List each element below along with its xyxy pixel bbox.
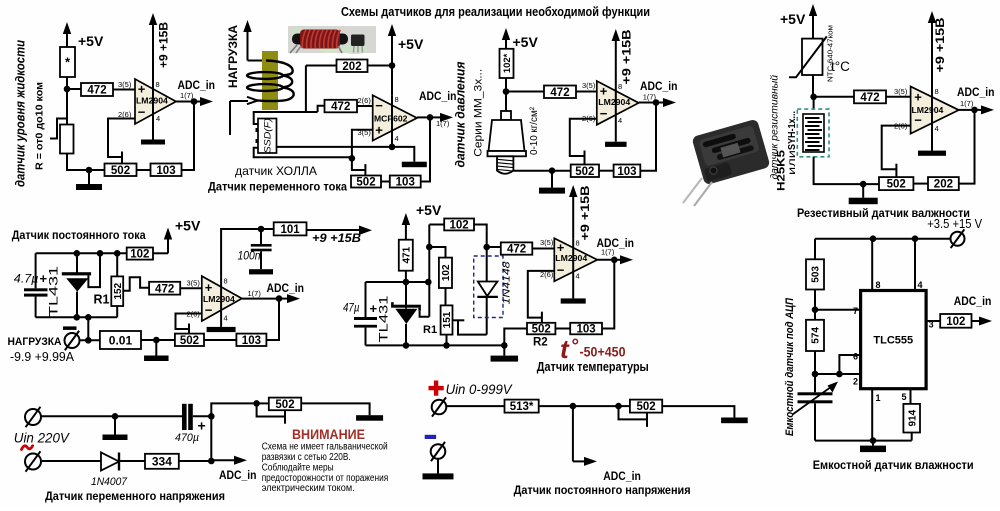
ADC_in arrow C7 — [972, 320, 984, 322]
svg-text:R2: R2 — [533, 337, 548, 349]
wire — [532, 248, 554, 250]
wire output C3 — [639, 102, 656, 104]
svg-text:470µ: 470µ — [175, 432, 199, 444]
pot wiper C1 — [50, 119, 67, 139]
svg-text:2: 2 — [853, 377, 858, 387]
wire — [599, 170, 614, 172]
node C6 a — [403, 279, 410, 286]
capacitor 47u C6 — [365, 282, 367, 317]
wire — [381, 181, 390, 183]
resistor 202 C4 — [928, 177, 959, 190]
wire — [474, 225, 487, 248]
resistor 472 C1 — [81, 83, 113, 96]
photo inductor and hall sensor — [288, 26, 376, 54]
svg-text:103: 103 — [242, 335, 261, 347]
resistor 103 C6 — [570, 323, 602, 335]
wire — [911, 433, 913, 441]
pin 8 wire C3 — [615, 36, 617, 81]
wire — [266, 299, 279, 340]
svg-text:−: − — [557, 263, 565, 278]
terminal T1 C8 — [25, 409, 41, 425]
ground C1 — [88, 170, 90, 184]
svg-text:502: 502 — [887, 179, 906, 191]
pin 5 wire C7 — [910, 389, 912, 404]
svg-text:3(5): 3(5) — [582, 81, 596, 90]
svg-text:ADC_in: ADC_in — [640, 79, 678, 93]
ground C6 opamp — [561, 298, 586, 303]
capacitor 4.7u C5 — [35, 253, 37, 288]
pin 8 wire C7 — [871, 239, 873, 291]
svg-text:3(5): 3(5) — [540, 238, 554, 247]
wire fb step C2 — [352, 158, 366, 170]
svg-text:+5V: +5V — [416, 202, 442, 218]
svg-text:1N4007: 1N4007 — [91, 476, 128, 488]
svg-text:+5V: +5V — [175, 218, 201, 234]
svg-text:Датчик переменного напряжения: Датчик переменного напряжения — [45, 489, 225, 503]
wiper stub C2 — [364, 164, 366, 175]
resistor 101 C5 — [274, 222, 307, 235]
coil L1 C2 — [247, 72, 283, 79]
node out C2 — [427, 114, 434, 121]
node C9 a — [570, 403, 577, 410]
svg-text:1N4148: 1N4148 — [500, 261, 512, 304]
load arrow up C2 — [247, 28, 249, 61]
node C5 e — [85, 314, 92, 321]
svg-text:+: + — [138, 82, 146, 97]
wire — [301, 403, 369, 415]
terminal supply C7 — [951, 232, 965, 246]
node C5 c — [114, 250, 121, 257]
resistor 103 C1 — [151, 164, 182, 177]
svg-text:502: 502 — [356, 177, 375, 189]
resistor 202 C2 — [337, 60, 368, 73]
resistor 502 C1 — [105, 164, 137, 177]
pin 4 wire C1 — [152, 79, 154, 140]
TL431 D2 C6 — [405, 282, 407, 309]
svg-text:Емкостной датчик под АЦП: Емкостной датчик под АЦП — [784, 297, 796, 436]
node out C1 — [191, 98, 198, 105]
svg-text:101: 101 — [281, 224, 301, 236]
wire — [959, 110, 975, 184]
ground C1 opamp — [141, 140, 165, 145]
svg-text:103: 103 — [577, 324, 596, 336]
node gnd C1 — [86, 167, 93, 174]
resistor 103 C2 — [390, 176, 421, 188]
wire — [506, 91, 544, 93]
pin 8 wire C2 — [391, 66, 393, 96]
wire 202 riser C2 — [305, 66, 307, 113]
node C7 d — [812, 371, 819, 378]
svg-text:103: 103 — [617, 166, 636, 178]
svg-text:4.7µ: 4.7µ — [14, 272, 39, 286]
wire — [662, 406, 734, 417]
node C8 a — [112, 413, 119, 420]
svg-text:+3.5 +15 V: +3.5 +15 V — [927, 216, 982, 231]
pin 8 wire C5 — [221, 229, 274, 276]
terminal T2 C8 — [25, 454, 41, 470]
resistor 502 R2 C6 — [527, 323, 555, 335]
node out C6 — [611, 257, 618, 264]
pin 4 wire C7 — [914, 239, 916, 291]
svg-text:8: 8 — [156, 80, 160, 89]
resistor 102* C3 — [500, 49, 514, 78]
svg-text:1(7): 1(7) — [601, 248, 615, 257]
svg-text:ADC_in: ADC_in — [178, 78, 216, 92]
svg-text:103: 103 — [156, 165, 175, 177]
svg-text:2(6): 2(6) — [540, 270, 554, 279]
feedback wire C5 — [176, 314, 202, 330]
svg-text:0.01: 0.01 — [109, 333, 133, 347]
shunt 0.01 C5 — [100, 331, 141, 349]
wire SSD bottom hook C2 — [254, 148, 352, 158]
wire — [141, 339, 175, 341]
svg-text:−: − — [600, 106, 608, 121]
op-amp U1 LM2904 — [135, 79, 176, 124]
variable capacitor C7 — [814, 374, 816, 392]
wire hook top SSD C2 — [254, 112, 318, 124]
wire output C2 — [417, 116, 430, 118]
node C6 c — [426, 244, 433, 251]
wiper stub C3 — [584, 151, 586, 165]
svg-text:1: 1 — [876, 393, 881, 403]
node gnd C4 — [860, 181, 867, 188]
svg-text:+5V: +5V — [780, 11, 806, 27]
label minus C9 — [425, 435, 436, 439]
feedback wire C3 — [570, 119, 597, 156]
op-amp U5 LM2904 — [202, 276, 242, 321]
wire — [429, 247, 445, 258]
ADC_in arrow C3 — [656, 102, 667, 104]
node C5 b — [97, 250, 104, 257]
svg-text:502: 502 — [275, 399, 294, 411]
svg-text:SSD(F): SSD(F) — [263, 118, 273, 153]
pin 8 wire C1 — [152, 20, 154, 79]
input arrow C2 — [230, 100, 248, 102]
svg-text:102: 102 — [441, 264, 452, 281]
terminal load C5 — [65, 333, 80, 348]
terminal T2 C9 — [431, 444, 446, 459]
resistor R* C1 — [60, 47, 75, 77]
ground C5 shunt — [155, 340, 157, 356]
svg-text:R1: R1 — [423, 324, 437, 336]
svg-text:502: 502 — [532, 324, 551, 336]
wire — [505, 78, 507, 92]
svg-text:472: 472 — [155, 283, 174, 295]
wire — [193, 415, 212, 417]
svg-text:1(7): 1(7) — [436, 119, 450, 128]
ADC_in arrow C1 — [194, 101, 204, 103]
node C5 d — [74, 314, 81, 321]
svg-text:TLC555: TLC555 — [873, 335, 913, 347]
capacitor 470u C8 — [182, 404, 187, 430]
resistor 102 C6 top — [444, 219, 474, 231]
resistor 502 C5 — [175, 334, 204, 346]
ground C8 top — [114, 416, 116, 434]
svg-text:8: 8 — [576, 239, 580, 248]
svg-text:8: 8 — [395, 95, 399, 104]
node A1 — [64, 86, 71, 93]
wire — [913, 183, 928, 185]
ADC_in arrow C2 — [430, 116, 444, 118]
svg-text:472: 472 — [331, 101, 350, 113]
node 100n C5 — [258, 226, 265, 233]
wire — [204, 339, 236, 341]
svg-text:ADC_in: ADC_in — [219, 468, 257, 482]
svg-text:−: − — [138, 105, 146, 120]
terminal bar C5 — [63, 326, 77, 330]
node C6 f — [403, 342, 410, 349]
resistor 472 C4 — [854, 90, 886, 103]
wire — [119, 460, 145, 462]
svg-text:−: − — [375, 98, 383, 113]
svg-text:47µ: 47µ — [343, 301, 360, 315]
wire top rail C5 — [36, 252, 127, 254]
resistor 502 C9 — [630, 400, 662, 413]
svg-text:4: 4 — [156, 114, 160, 123]
power +5V arrow C1 — [66, 30, 68, 47]
svg-text:электрическим током.: электрическим током. — [262, 483, 355, 494]
wire sensor drop C3 — [505, 92, 507, 112]
svg-text:ADC_in: ADC_in — [603, 469, 641, 483]
svg-text:H25K5: H25K5 — [775, 150, 787, 191]
svg-text:102: 102 — [450, 220, 469, 232]
wire pot top C1 — [66, 89, 68, 125]
wire output C4 — [959, 109, 975, 111]
feedback wire C4 — [882, 126, 911, 170]
power +5V arrow C4 — [812, 12, 814, 39]
svg-text:Датчик постоянного напряжения: Датчик постоянного напряжения — [514, 483, 691, 497]
svg-text:Схема не имеет гальванической: Схема не имеет гальванической — [262, 442, 388, 453]
svg-text:НАГРУЗКА: НАГРУЗКА — [228, 25, 240, 88]
svg-text:4: 4 — [935, 124, 939, 133]
node pin4 C2 — [389, 144, 396, 151]
svg-text:Серии ММ_3х...: Серии ММ_3х... — [472, 69, 484, 157]
wire output C5 — [242, 298, 279, 300]
node C9 b — [615, 403, 622, 410]
svg-text:151: 151 — [442, 311, 453, 328]
ground C5 100n — [249, 269, 273, 274]
svg-text:3: 3 — [929, 320, 934, 330]
wire — [576, 91, 597, 93]
feedback wire C1 — [108, 119, 135, 158]
svg-text:4: 4 — [576, 272, 580, 281]
svg-text:8: 8 — [224, 277, 228, 286]
svg-text:датчик уровня жидкости: датчик уровня жидкости — [14, 40, 28, 187]
wire — [80, 339, 100, 341]
svg-text:202: 202 — [342, 61, 361, 73]
node C7 f — [870, 437, 877, 444]
wire bottom rail C7 — [815, 440, 912, 442]
resistor 103 C5 — [236, 334, 266, 346]
wiper stub C4 — [895, 164, 897, 177]
svg-text:3(5): 3(5) — [187, 279, 201, 288]
diode 1N4007 C8 — [101, 453, 119, 471]
svg-text:4: 4 — [224, 314, 228, 323]
potentiometer C1 — [60, 125, 74, 154]
pin 4 wire C3 — [615, 81, 617, 142]
wire — [447, 405, 505, 407]
wire — [257, 402, 269, 404]
svg-text:472: 472 — [550, 87, 569, 99]
node C3 — [503, 88, 510, 95]
svg-text:−: − — [205, 303, 213, 318]
pin 6 wire C7 — [839, 355, 860, 374]
TL431 ref tail C6 — [420, 311, 430, 317]
node C4 — [810, 94, 817, 101]
resistor 102 C7 — [940, 314, 971, 328]
op-amp U6 LM2904 — [554, 238, 597, 281]
svg-text:+5V: +5V — [78, 33, 104, 49]
label plus C9 — [429, 386, 444, 390]
node C7 a — [870, 235, 877, 242]
svg-text:1(7): 1(7) — [643, 93, 657, 102]
pin 8 wire C6 — [572, 192, 574, 238]
svg-text:502: 502 — [180, 335, 199, 347]
svg-text:-9.9 +9.99A: -9.9 +9.99A — [10, 350, 75, 364]
TL431 D1 C5 — [76, 253, 78, 273]
svg-text:+: + — [375, 123, 383, 138]
node C7 b — [912, 235, 919, 242]
ADC_in arrow C5 — [279, 298, 291, 300]
wire to 502 C6 — [504, 329, 527, 346]
wire — [421, 117, 430, 181]
wire — [66, 77, 68, 89]
wire — [113, 89, 135, 91]
pin 4 wire C5 — [220, 276, 222, 327]
wire link C8 — [210, 416, 212, 461]
wire ADC drop C9 — [572, 406, 574, 461]
wire — [619, 405, 630, 407]
svg-text:НАГРУЗКА: НАГРУЗКА — [8, 336, 62, 348]
wire — [405, 271, 407, 282]
wire — [814, 351, 816, 374]
svg-text:8: 8 — [618, 82, 622, 91]
wiper C9 — [619, 406, 648, 419]
svg-text:334: 334 — [152, 455, 172, 469]
svg-text:502: 502 — [575, 166, 594, 178]
pin 8 wire C4 — [931, 18, 933, 87]
wire — [602, 260, 614, 329]
ground C3 — [551, 171, 553, 188]
svg-text:502: 502 — [636, 401, 655, 413]
node C7 c — [812, 306, 819, 313]
resistor 334 C8 — [145, 454, 179, 469]
core bar C2 — [262, 51, 278, 110]
svg-text:1(7): 1(7) — [960, 99, 974, 108]
svg-text:датчик ХОЛЛА: датчик ХОЛЛА — [235, 164, 318, 178]
svg-text:6: 6 — [853, 352, 858, 362]
wire — [87, 317, 89, 340]
svg-text:3(5): 3(5) — [118, 80, 132, 89]
svg-text:7: 7 — [853, 306, 858, 316]
svg-text:R1: R1 — [94, 293, 110, 307]
svg-text:472: 472 — [87, 85, 106, 97]
wire sensor out C3 — [513, 170, 570, 172]
node C6 e — [443, 342, 450, 349]
dashed box 1N4148 C6 — [474, 256, 503, 318]
node C5 g — [153, 337, 160, 344]
resistor 574 C7 — [814, 310, 816, 320]
wire bottom rail C6 — [366, 344, 505, 346]
wire — [886, 96, 911, 98]
node C8 d — [208, 458, 215, 465]
svg-text:+9 +15В: +9 +15В — [935, 18, 947, 73]
power +5V arrow C6 — [405, 221, 407, 240]
wire output C1 — [176, 101, 199, 103]
svg-text:Uin 0-999V: Uin 0-999V — [446, 381, 514, 397]
pin 1 wire C7 — [871, 389, 873, 441]
svg-text:R = от0 до10 ком: R = от0 до10 ком — [35, 82, 46, 170]
resistor 102 C5 — [127, 248, 153, 260]
resistor 152 R1 C5 — [116, 253, 118, 276]
svg-text:+9 +15В: +9 +15В — [312, 231, 362, 245]
node C6 b — [425, 279, 432, 286]
ADC_in arrow C6 — [614, 259, 624, 261]
ground C9 T2 — [437, 459, 439, 474]
wire — [306, 65, 337, 67]
wire — [429, 224, 444, 226]
svg-text:8: 8 — [876, 280, 881, 290]
resistor 471 C6 — [399, 240, 413, 271]
pin 4 wire C4 — [931, 87, 933, 151]
wiper stub C1 — [121, 152, 123, 164]
svg-text:SYH-1x...: SYH-1x... — [786, 111, 798, 150]
wire — [445, 288, 447, 305]
node C8 c — [253, 400, 260, 407]
pin 4 wire C2 — [391, 95, 393, 147]
svg-text:1(7): 1(7) — [180, 91, 194, 100]
wire bottom rail C5 — [36, 316, 118, 318]
resistor 502 C8 — [269, 398, 301, 411]
wire — [153, 252, 168, 254]
svg-text:4: 4 — [618, 116, 622, 125]
svg-text:+: + — [914, 90, 922, 105]
wire — [211, 403, 256, 416]
thermistor NTC C4 — [802, 39, 823, 75]
wire — [446, 335, 448, 346]
svg-text:ADC_in: ADC_in — [267, 281, 305, 295]
resistor 914 C7 — [903, 404, 920, 433]
power +5V arrow C5 — [167, 236, 169, 254]
svg-text:или: или — [787, 150, 798, 175]
svg-text:152: 152 — [113, 282, 124, 299]
ground C6 — [503, 345, 505, 355]
resistor 502 C4 — [879, 177, 913, 190]
svg-text:502: 502 — [111, 165, 130, 177]
svg-text:3(5): 3(5) — [894, 87, 908, 96]
svg-text:102: 102 — [946, 316, 965, 328]
svg-text:+9 +15В: +9 +15В — [622, 30, 634, 85]
svg-text:+: + — [557, 240, 565, 255]
svg-text:513*: 513* — [510, 401, 534, 413]
node out C3 — [653, 99, 660, 106]
svg-text:Датчик постоянного тока: Датчик постоянного тока — [12, 228, 146, 242]
wire — [67, 154, 105, 171]
wire — [539, 405, 573, 407]
wire — [573, 405, 619, 407]
resistor 472 C2 — [325, 100, 358, 113]
label tilde C8 — [22, 446, 33, 450]
node out C4 — [971, 107, 978, 114]
resistor 513* C9 — [505, 400, 539, 413]
svg-text:+9 +15В: +9 +15В — [580, 186, 592, 241]
svg-text:503: 503 — [811, 266, 822, 283]
resistor 502 C2 — [351, 176, 381, 188]
svg-text:+: + — [600, 84, 608, 99]
pin 4 wire C6 — [572, 238, 574, 298]
resistor 472 C6 — [501, 242, 533, 254]
resistor 502 C3 — [571, 165, 599, 178]
